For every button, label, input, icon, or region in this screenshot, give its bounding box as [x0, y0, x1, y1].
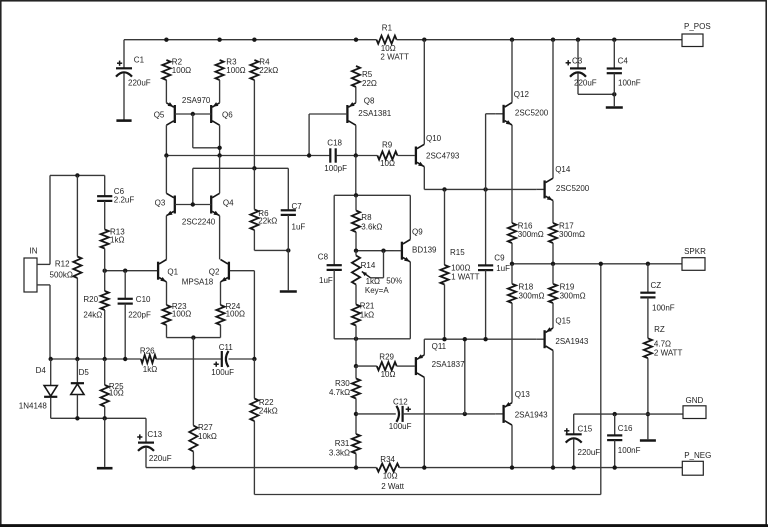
svg-text:SPKR: SPKR [684, 247, 706, 256]
svg-text:C15: C15 [578, 425, 593, 434]
svg-text:Q3: Q3 [155, 198, 166, 207]
svg-text:C8: C8 [318, 253, 329, 262]
svg-text:2.2uF: 2.2uF [114, 195, 135, 204]
svg-text:C7: C7 [292, 202, 303, 211]
svg-text:2 Watt: 2 Watt [381, 482, 405, 491]
svg-text:R29: R29 [379, 352, 394, 361]
svg-text:Q5: Q5 [154, 111, 165, 120]
svg-text:C13: C13 [147, 430, 162, 439]
svg-text:220pF: 220pF [128, 310, 151, 319]
svg-text:3.6kΩ: 3.6kΩ [361, 223, 382, 232]
svg-text:Q12: Q12 [514, 90, 530, 99]
svg-text:10Ω: 10Ω [383, 471, 398, 480]
svg-text:300mΩ: 300mΩ [559, 230, 585, 239]
svg-text:100nF: 100nF [618, 79, 641, 88]
svg-text:Q11: Q11 [432, 342, 447, 351]
svg-text:100pF: 100pF [324, 164, 347, 173]
svg-text:100Ω: 100Ω [172, 309, 191, 318]
svg-text:1kΩ: 1kΩ [143, 365, 157, 374]
svg-text:10Ω: 10Ω [381, 370, 396, 379]
svg-text:10Ω: 10Ω [380, 159, 395, 168]
svg-text:220uF: 220uF [574, 79, 597, 88]
svg-text:CZ: CZ [651, 281, 662, 290]
svg-text:1uF: 1uF [319, 276, 333, 285]
svg-text:R14: R14 [361, 261, 376, 270]
svg-text:R21: R21 [360, 301, 375, 310]
svg-text:P_NEG: P_NEG [684, 451, 711, 460]
svg-text:2SC2240: 2SC2240 [182, 217, 216, 226]
svg-text:2SA970: 2SA970 [182, 96, 211, 105]
svg-text:220uF: 220uF [128, 79, 151, 88]
svg-text:BD139: BD139 [412, 245, 437, 254]
svg-text:1uF: 1uF [292, 222, 306, 231]
svg-text:10kΩ: 10kΩ [198, 432, 217, 441]
svg-text:R26: R26 [140, 346, 155, 355]
svg-text:22kΩ: 22kΩ [259, 66, 278, 75]
svg-text:500kΩ: 500kΩ [50, 271, 73, 280]
svg-text:IN: IN [30, 247, 38, 256]
svg-text:R9: R9 [382, 141, 393, 150]
svg-text:100nF: 100nF [618, 446, 641, 455]
svg-text:100uF: 100uF [389, 422, 412, 431]
svg-text:C9: C9 [494, 253, 505, 262]
svg-text:1kΩ: 1kΩ [110, 236, 124, 245]
svg-text:Q4: Q4 [223, 198, 234, 207]
svg-text:1N4148: 1N4148 [19, 402, 48, 411]
svg-text:Q1: Q1 [167, 268, 178, 277]
svg-text:4.7kΩ: 4.7kΩ [329, 388, 350, 397]
svg-text:2SA1837: 2SA1837 [432, 360, 465, 369]
svg-text:GND: GND [686, 396, 704, 405]
svg-text:220uF: 220uF [149, 454, 172, 463]
svg-text:R19: R19 [560, 283, 575, 292]
svg-text:Key=A: Key=A [365, 286, 389, 295]
svg-text:R8: R8 [361, 213, 372, 222]
svg-text:Q6: Q6 [222, 111, 233, 120]
svg-text:Q14: Q14 [555, 165, 571, 174]
svg-text:C12: C12 [393, 397, 408, 406]
svg-text:2 WATT: 2 WATT [654, 349, 683, 358]
svg-text:1kΩ: 1kΩ [366, 277, 380, 286]
svg-text:Q9: Q9 [412, 227, 423, 236]
svg-text:R16: R16 [518, 221, 533, 230]
svg-text:2SA1943: 2SA1943 [555, 337, 588, 346]
svg-text:100nF: 100nF [652, 304, 675, 313]
svg-text:Q13: Q13 [515, 390, 531, 399]
svg-text:C18: C18 [327, 138, 342, 147]
svg-text:Q10: Q10 [426, 134, 442, 143]
svg-text:R20: R20 [83, 295, 98, 304]
svg-text:Q8: Q8 [364, 96, 375, 105]
svg-text:D4: D4 [36, 366, 47, 375]
svg-text:C11: C11 [219, 343, 234, 352]
svg-text:10Ω: 10Ω [109, 388, 124, 397]
svg-text:2 WATT: 2 WATT [380, 52, 409, 61]
svg-text:C1: C1 [134, 56, 145, 65]
svg-text:3.3kΩ: 3.3kΩ [329, 449, 350, 458]
svg-text:2SC4793: 2SC4793 [426, 151, 460, 160]
svg-text:R34: R34 [380, 455, 395, 464]
svg-text:C4: C4 [618, 56, 629, 65]
svg-text:D5: D5 [79, 368, 90, 377]
svg-text:RZ: RZ [654, 325, 665, 334]
svg-text:2SA1943: 2SA1943 [515, 410, 548, 419]
svg-text:R5: R5 [362, 70, 373, 79]
svg-text:22Ω: 22Ω [362, 79, 377, 88]
svg-text:R18: R18 [519, 283, 534, 292]
svg-text:100Ω: 100Ω [226, 66, 245, 75]
svg-text:C3: C3 [572, 57, 583, 66]
svg-text:100Ω: 100Ω [172, 66, 191, 75]
svg-text:R12: R12 [55, 260, 70, 269]
svg-text:300mΩ: 300mΩ [519, 291, 545, 300]
svg-text:100Ω: 100Ω [226, 309, 245, 318]
svg-text:1kΩ: 1kΩ [360, 311, 374, 320]
svg-text:300mΩ: 300mΩ [518, 230, 544, 239]
svg-text:Q2: Q2 [209, 268, 220, 277]
svg-text:50%: 50% [386, 277, 402, 286]
svg-text:P_POS: P_POS [684, 22, 711, 31]
svg-text:C16: C16 [618, 424, 633, 433]
svg-text:1 WATT: 1 WATT [451, 272, 480, 281]
svg-text:4.7Ω: 4.7Ω [654, 339, 671, 348]
svg-text:24kΩ: 24kΩ [259, 406, 278, 415]
svg-text:2SC5200: 2SC5200 [515, 108, 549, 117]
svg-text:24kΩ: 24kΩ [83, 310, 102, 319]
svg-text:2SA1381: 2SA1381 [358, 109, 391, 118]
svg-text:R27: R27 [198, 423, 213, 432]
svg-text:300mΩ: 300mΩ [560, 291, 586, 300]
svg-text:R31: R31 [335, 439, 350, 448]
svg-text:1uF: 1uF [496, 264, 510, 273]
svg-text:R17: R17 [559, 221, 574, 230]
svg-text:R15: R15 [450, 248, 465, 257]
svg-text:C10: C10 [136, 295, 151, 304]
svg-text:Q15: Q15 [555, 317, 571, 326]
svg-text:100uF: 100uF [211, 368, 234, 377]
svg-text:R1: R1 [382, 23, 393, 32]
svg-text:22kΩ: 22kΩ [258, 216, 277, 225]
svg-text:2SC5200: 2SC5200 [556, 184, 590, 193]
svg-text:220uF: 220uF [578, 448, 601, 457]
svg-text:MPSA18: MPSA18 [182, 277, 214, 286]
